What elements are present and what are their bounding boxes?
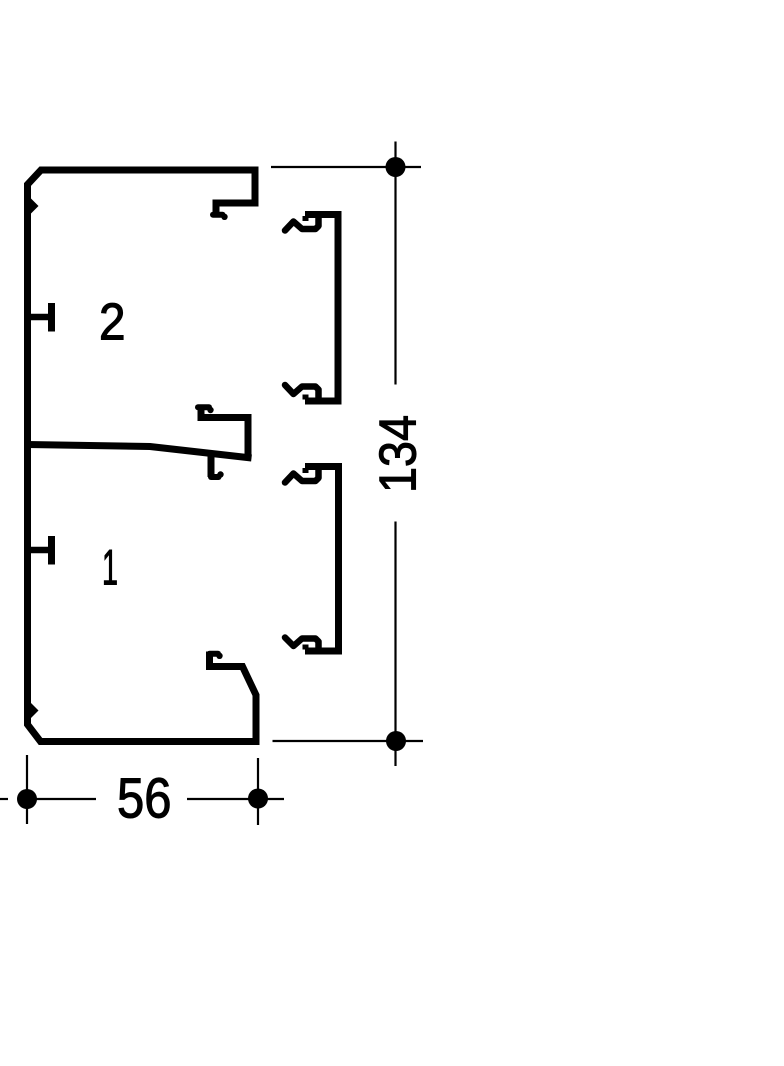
height dimension top line <box>271 166 421 168</box>
svg-text:1: 1 <box>102 540 118 596</box>
top cover-rail foot <box>213 212 223 218</box>
wall tab T lower crossbar <box>48 536 55 565</box>
height dimension bottom marker <box>386 731 406 751</box>
upper cover top claw <box>285 216 319 231</box>
divider rail top foot <box>198 404 209 410</box>
lower wall barb <box>31 703 39 718</box>
wall tab T upper stem <box>30 314 48 321</box>
width dimension right extension <box>257 758 259 825</box>
bottom cover-rail foot <box>210 651 219 657</box>
width dimension left dash <box>0 798 8 800</box>
divider lower stub foot <box>211 474 219 480</box>
upper cover bottom edge stub <box>303 395 309 400</box>
wall tab T lower stem <box>30 547 48 554</box>
divider rail top foot nub <box>207 407 213 413</box>
divider wall <box>28 445 252 459</box>
divider right rail assembly <box>201 405 248 459</box>
top cover-rail foot nub <box>221 214 227 220</box>
lower cover top edge stub <box>303 468 309 473</box>
height dimension bottom line <box>273 740 424 742</box>
upper cover bottom claw <box>285 385 319 400</box>
upper wall barb <box>31 199 39 214</box>
wall tab T upper crossbar <box>48 303 55 332</box>
lower cover top claw <box>285 468 319 483</box>
lower cover bottom claw <box>285 638 319 650</box>
svg-text:56: 56 <box>117 767 172 830</box>
svg-text:134: 134 <box>370 415 428 493</box>
upper cover frame <box>305 215 338 402</box>
width dimension right line <box>187 798 284 800</box>
divider lower stub <box>208 455 215 477</box>
height dimension vertical upper segment <box>394 142 396 385</box>
height dimension top marker <box>386 157 406 177</box>
lower cover bottom edge stub <box>303 645 309 650</box>
upper cover top edge stub <box>303 216 309 221</box>
divider lower stub nub <box>217 471 223 477</box>
lower cover frame <box>305 467 339 652</box>
trunking body outer shell <box>28 170 257 742</box>
width dimension left marker <box>17 789 37 809</box>
width dimension right marker <box>248 789 268 809</box>
width dimension left extension <box>26 755 28 824</box>
width dimension left line <box>27 798 96 800</box>
svg-text:2: 2 <box>99 293 126 351</box>
height dimension vertical lower segment <box>394 522 396 767</box>
bottom cover-rail foot nub <box>216 653 222 659</box>
